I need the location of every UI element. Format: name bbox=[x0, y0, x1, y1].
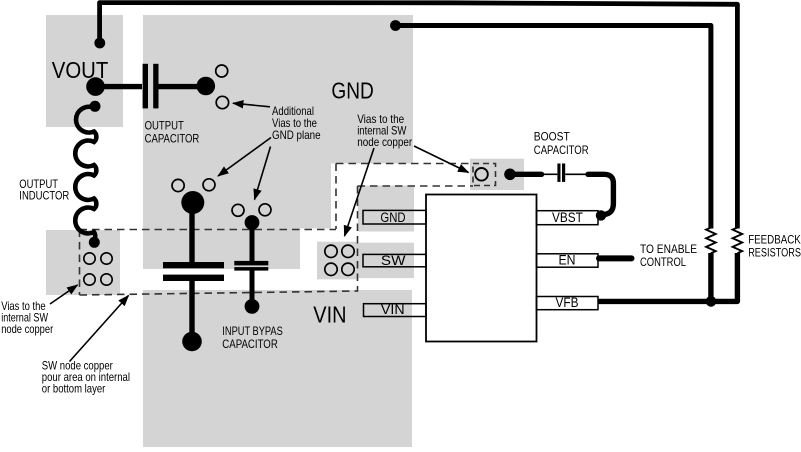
node inductor bottom bbox=[89, 237, 100, 248]
SW node pour dashed inner vertical bbox=[357, 186, 359, 292]
svg-text:or bottom layer: or bottom layer bbox=[42, 382, 106, 396]
SW node pour dashed outline bottom bbox=[80, 291, 359, 295]
VOUT copper pour bbox=[46, 15, 123, 127]
svg-text:GND plane: GND plane bbox=[272, 128, 321, 142]
via near bypass cap (right) bbox=[259, 204, 271, 216]
input capacitor plate 1 bbox=[163, 262, 224, 268]
left SW via 2 bbox=[101, 253, 112, 264]
left SW via 4 bbox=[101, 274, 112, 285]
SW pin copper patch bbox=[358, 243, 414, 278]
node VBST bbox=[596, 210, 606, 220]
wire output capacitor to GND dot bbox=[159, 84, 201, 89]
svg-text:SW: SW bbox=[381, 253, 406, 268]
wire VOUT to feedback top bbox=[100, 3, 738, 229]
svg-text:INPUT BYPAS: INPUT BYPAS bbox=[222, 324, 282, 338]
wire R1 bottom to VFB bbox=[708, 253, 713, 301]
GND pin copper patch bbox=[358, 186, 414, 232]
wire boost thin left bbox=[542, 173, 558, 175]
svg-text:VOUT: VOUT bbox=[52, 57, 109, 83]
svg-text:FEEDBACK: FEEDBACK bbox=[748, 232, 801, 246]
svg-text:INDUCTOR: INDUCTOR bbox=[19, 188, 69, 202]
arrow to left SW vias bbox=[50, 285, 78, 304]
via near input cap (left) bbox=[172, 179, 184, 191]
svg-text:CAPACITOR: CAPACITOR bbox=[222, 337, 278, 351]
node boost wire start bbox=[504, 169, 516, 181]
via near input cap (right) bbox=[203, 179, 215, 191]
svg-text:GND: GND bbox=[380, 210, 405, 225]
svg-text:VIN: VIN bbox=[313, 302, 346, 328]
via to GND plane (upper) bbox=[216, 65, 228, 77]
boost via copper patch bbox=[470, 159, 524, 190]
via to GND plane (lower) bbox=[216, 96, 228, 108]
op-amp U1 IC body bbox=[426, 195, 537, 342]
via to internal SW node (boost) bbox=[475, 168, 488, 181]
boost capacitor plate 1 bbox=[557, 164, 560, 182]
svg-text:CONTROL: CONTROL bbox=[640, 255, 686, 269]
arrow to bypass cap vias bbox=[255, 147, 271, 200]
wire boost hook to VBST bbox=[588, 174, 613, 214]
boost via dashed box bbox=[473, 164, 496, 186]
input capacitor lead bottom bbox=[189, 280, 194, 335]
SW via 1 bbox=[325, 245, 337, 257]
SW node pour dashed step up bbox=[335, 164, 337, 230]
node output capacitor GND bbox=[197, 77, 216, 96]
resistor R2 (to VOUT) bbox=[733, 228, 743, 254]
junction node VFB bbox=[706, 296, 717, 307]
wire GND sense to feedback bbox=[396, 26, 711, 229]
pin VFB box bbox=[537, 297, 599, 310]
left SW via 3 bbox=[84, 274, 95, 285]
node bypass capacitor top bbox=[245, 215, 260, 230]
SW vias copper patch bbox=[317, 242, 358, 280]
arrow to boost via bbox=[414, 146, 469, 173]
bypass capacitor plate 2 bbox=[234, 267, 268, 271]
via near bypass cap (left) bbox=[232, 204, 244, 216]
svg-text:EN: EN bbox=[559, 252, 576, 267]
bypass capacitor plate 1 bbox=[234, 261, 268, 266]
bypass capacitor lead bottom bbox=[250, 270, 255, 300]
boost capacitor plate 2 bbox=[562, 164, 565, 182]
node VOUT top via bbox=[94, 38, 105, 49]
svg-text:VFB: VFB bbox=[556, 295, 579, 310]
arrow to SW pour dashed edge bbox=[70, 296, 129, 362]
wire VFB to R2 bottom bbox=[598, 253, 737, 301]
node inductor top bbox=[90, 101, 101, 112]
resistor R1 (to GND) bbox=[706, 228, 716, 254]
arrow to input cap vias bbox=[218, 138, 271, 177]
svg-text:VBST: VBST bbox=[552, 210, 583, 225]
SW node pour dashed upper run bbox=[336, 163, 473, 165]
arrow to SW vias bbox=[345, 148, 375, 236]
left SW node copper box bbox=[46, 230, 120, 295]
left SW via 1 bbox=[84, 253, 95, 264]
svg-text:CAPACITOR: CAPACITOR bbox=[145, 131, 200, 145]
svg-text:node copper: node copper bbox=[357, 135, 412, 149]
node input capacitor bottom bbox=[182, 332, 202, 352]
svg-text:RESISTORS: RESISTORS bbox=[748, 245, 801, 259]
pin EN box bbox=[537, 254, 599, 267]
SW node pour dashed outline left bbox=[79, 230, 81, 296]
pin SW box bbox=[363, 254, 426, 266]
svg-text:node copper: node copper bbox=[1, 322, 53, 336]
svg-text:GND: GND bbox=[331, 77, 373, 103]
SW via 4 bbox=[342, 263, 354, 275]
node bypass capacitor bottom bbox=[245, 299, 260, 314]
pin VBST box bbox=[537, 211, 599, 225]
VIN copper pour (lower) bbox=[143, 290, 412, 447]
input capacitor lead top bbox=[189, 206, 194, 262]
output inductor L1 coil bbox=[75, 107, 96, 240]
capacitor C-OUT plate 1 bbox=[143, 64, 148, 109]
input capacitor plate 2 bbox=[163, 275, 224, 281]
svg-text:CAPACITOR: CAPACITOR bbox=[534, 143, 589, 157]
svg-text:BOOST: BOOST bbox=[534, 130, 571, 144]
pin GND box bbox=[363, 210, 426, 224]
wire boost thin right bbox=[565, 173, 588, 175]
svg-text:VIN: VIN bbox=[381, 302, 405, 317]
node VOUT junction bbox=[86, 77, 105, 96]
GND plane copper pour (upper) bbox=[143, 15, 413, 269]
wire VOUT to output capacitor bbox=[96, 84, 143, 89]
wire EN to enable control bbox=[599, 255, 632, 261]
SW via 3 bbox=[325, 263, 337, 275]
capacitor C-OUT plate 2 bbox=[153, 64, 158, 109]
node input capacitor top bbox=[181, 191, 204, 214]
SW node pour dashed outline top bbox=[80, 229, 337, 231]
SW node pour dashed lower run bbox=[358, 185, 474, 187]
arrow to GND via upper bbox=[233, 103, 270, 107]
SW via 2 bbox=[342, 245, 354, 257]
bypass capacitor lead top bbox=[250, 226, 255, 262]
wire boost thick segment bbox=[514, 172, 542, 177]
node GND sense dot bbox=[390, 20, 401, 31]
pin VIN box bbox=[364, 304, 427, 317]
